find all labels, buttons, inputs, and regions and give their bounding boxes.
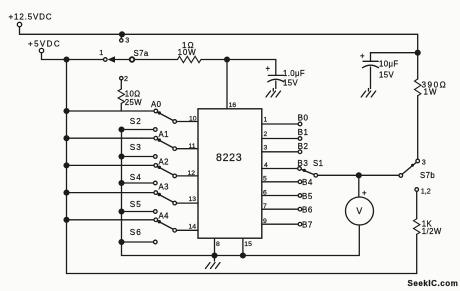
svg-text:B1: B1 <box>298 128 309 137</box>
wire row A0 <box>67 110 155 112</box>
wire ground rail <box>122 255 359 257</box>
svg-text:1: 1 <box>99 48 103 57</box>
resistor R4 1K 1/2W <box>414 219 420 234</box>
switch S7b contact 3 <box>416 159 420 163</box>
wire S7a to R1 <box>115 59 178 61</box>
wire pin 16 <box>226 60 228 109</box>
switch S7b contact 1,2 <box>415 188 419 192</box>
switch A0 <box>154 109 158 113</box>
svg-text:A2: A2 <box>159 157 169 166</box>
capacitor C2 10uF 15V <box>370 53 372 62</box>
svg-text:1/2W: 1/2W <box>422 227 442 236</box>
switch S7b pole <box>399 174 403 178</box>
wire contact 1,2 to R4 <box>416 191 418 219</box>
node A2 bus <box>64 163 69 168</box>
wire S1 to S7b pole <box>318 174 399 176</box>
svg-text:8: 8 <box>216 241 220 248</box>
switch A1 <box>154 136 158 140</box>
svg-text:1: 1 <box>264 117 268 124</box>
switch S4 <box>119 181 124 186</box>
wire left bus <box>66 60 68 274</box>
svg-text:B2: B2 <box>298 142 309 151</box>
node 3 (S7a contact 3 on +12.5V rail) <box>120 32 125 37</box>
ground C2 <box>361 89 376 98</box>
svg-text:3: 3 <box>422 157 426 166</box>
svg-text:A0: A0 <box>151 100 162 109</box>
svg-text:1.0μF: 1.0μF <box>283 69 305 78</box>
svg-text:S3: S3 <box>130 143 142 152</box>
ground C1 <box>266 89 281 98</box>
svg-text:25W: 25W <box>125 98 142 107</box>
svg-text:3: 3 <box>264 145 268 152</box>
op IC U1 8223 <box>198 109 262 238</box>
svg-text:A3: A3 <box>159 183 169 192</box>
svg-text:V: V <box>356 206 362 216</box>
svg-text:13: 13 <box>189 196 197 203</box>
svg-text:2: 2 <box>124 74 128 83</box>
svg-text:6: 6 <box>263 189 267 196</box>
svg-text:+: + <box>362 188 367 197</box>
resistor R2 10ohm 25W <box>118 89 124 103</box>
wire pin 4 B3 <box>262 168 298 170</box>
capacitor C1 1.0uF 15V <box>275 60 277 76</box>
switch S7a arm <box>108 56 115 63</box>
wire contact2 to R2 <box>120 80 122 89</box>
svg-text:S1: S1 <box>313 159 323 168</box>
svg-text:10W: 10W <box>178 48 197 57</box>
svg-text:A1: A1 <box>159 130 169 139</box>
svg-text:S7a: S7a <box>134 49 149 58</box>
svg-text:+5VDC: +5VDC <box>28 39 61 48</box>
svg-text:+: + <box>360 52 365 61</box>
wire pin 11 <box>177 148 199 150</box>
svg-text:12: 12 <box>188 170 196 177</box>
wire pin 1 B0 <box>262 123 298 125</box>
svg-text:S5: S5 <box>130 200 142 209</box>
svg-text:B0: B0 <box>298 114 309 123</box>
svg-text:B3: B3 <box>297 159 308 168</box>
wire +5V rail <box>42 53 104 60</box>
wire pin 14 <box>177 229 199 231</box>
node A3 bus <box>64 190 69 195</box>
switch A4 <box>154 218 158 222</box>
wire pin 8 <box>214 238 216 255</box>
node A0 bus <box>64 109 69 114</box>
voltmeter M1 <box>358 175 360 197</box>
ground pin8 <box>206 258 221 269</box>
terminal +12.5VDC <box>17 22 21 26</box>
svg-text:S4: S4 <box>130 173 142 182</box>
node pin16 junction <box>225 57 230 62</box>
switch S7b arm <box>402 162 416 174</box>
wire junction to R3 <box>417 53 419 79</box>
switch S1 arm <box>301 169 314 174</box>
node pin 8 <box>212 253 217 258</box>
svg-text:3: 3 <box>125 36 129 45</box>
svg-text:A4: A4 <box>159 212 170 221</box>
svg-text:16: 16 <box>229 102 237 109</box>
resistor R3 390ohm 1W <box>415 79 421 96</box>
switch S5 <box>119 209 124 214</box>
switch S7a contact 1 <box>104 58 108 62</box>
wire row A2 <box>67 164 155 166</box>
svg-text:15: 15 <box>244 241 252 248</box>
svg-text:1W: 1W <box>424 87 438 96</box>
svg-text:B6: B6 <box>302 205 313 214</box>
wire pin 15 <box>242 238 244 255</box>
svg-text:15V: 15V <box>379 71 394 80</box>
node pin 15 <box>241 253 246 258</box>
wire node to C1 <box>227 59 276 61</box>
switch S3 <box>119 154 124 159</box>
wire row A1 <box>67 137 155 139</box>
wire pin 9 B7 <box>262 223 298 225</box>
svg-text:B4: B4 <box>302 178 313 187</box>
wire R2 to A0 row <box>120 103 122 111</box>
svg-text:9: 9 <box>263 218 267 225</box>
svg-text:5: 5 <box>263 175 267 182</box>
wire pin 10 <box>177 121 199 123</box>
svg-text:11: 11 <box>189 143 196 150</box>
svg-text:15V: 15V <box>283 79 298 88</box>
node A1 bus <box>64 136 69 141</box>
svg-text:7: 7 <box>263 203 267 210</box>
svg-text:2: 2 <box>264 131 268 138</box>
wire pin 13 <box>177 202 199 204</box>
svg-text:1,2: 1,2 <box>421 186 431 195</box>
node right rail junction <box>415 50 420 55</box>
switch A3 <box>154 191 158 195</box>
svg-text:4: 4 <box>264 162 268 169</box>
node voltmeter junction <box>356 173 361 178</box>
wire mid bus <box>121 130 123 256</box>
wire bottom rail <box>67 273 417 275</box>
wire row A3 <box>67 192 155 194</box>
wire R1 to node <box>201 59 227 61</box>
switch S7a contact 2 <box>120 77 123 80</box>
wire pin 2 B1 <box>262 138 298 140</box>
wire pin 5 B4 <box>262 181 298 183</box>
wire pin 6 B5 <box>262 195 298 197</box>
svg-text:B7: B7 <box>302 220 313 229</box>
svg-text:+: + <box>266 64 271 73</box>
wire node to C2 <box>371 52 418 54</box>
wire R4 to bottom rail <box>416 234 418 273</box>
svg-text:SeekIC.com: SeekIC.com <box>408 279 459 288</box>
switch S2 <box>119 127 124 132</box>
svg-text:10μF: 10μF <box>379 60 399 69</box>
resistor R1 1ohm 10W <box>178 56 201 62</box>
svg-text:S2: S2 <box>130 117 142 126</box>
wire pin 12 <box>177 175 199 177</box>
svg-text:+12.5VDC: +12.5VDC <box>9 12 53 21</box>
wire R3 to S7b contact 3 <box>417 96 419 159</box>
svg-text:14: 14 <box>189 224 197 231</box>
wire pin 7 B6 <box>262 208 298 210</box>
svg-text:8223: 8223 <box>216 152 242 164</box>
wire row A4 <box>67 219 155 221</box>
switch S6 <box>119 240 124 245</box>
wire pin 3 B2 <box>262 151 298 153</box>
svg-text:B5: B5 <box>302 192 313 201</box>
svg-text:S6: S6 <box>130 228 142 237</box>
switch A2 <box>154 164 158 168</box>
svg-text:10: 10 <box>189 116 197 123</box>
terminal +5VDC <box>39 48 43 52</box>
node bus junction <box>64 57 69 62</box>
switch S7a pivot <box>130 57 135 62</box>
wire +12.5V rail <box>20 27 418 53</box>
svg-text:S7b: S7b <box>420 171 435 180</box>
node A4 bus <box>64 217 69 222</box>
